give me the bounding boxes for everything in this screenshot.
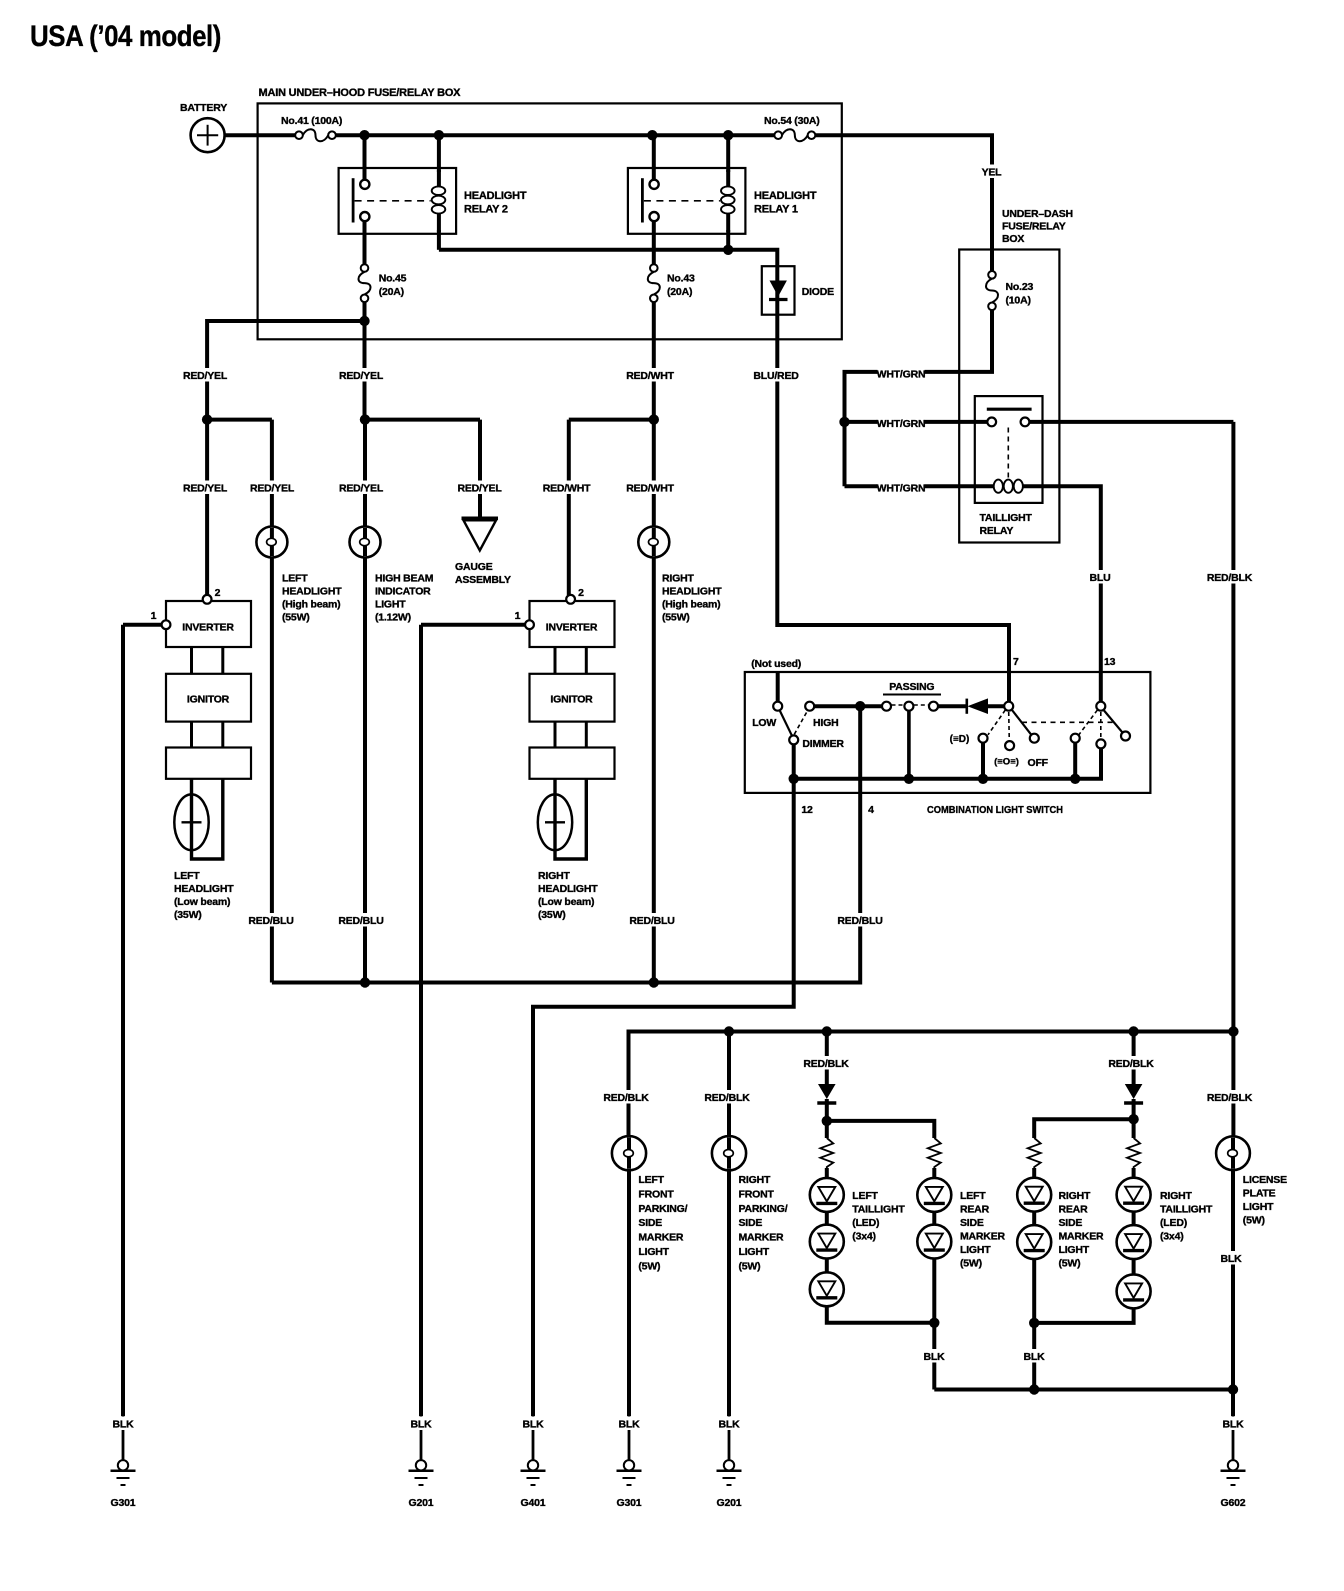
svg-text:RED/YEL: RED/YEL [339, 483, 384, 495]
svg-text:TAILLIGHT: TAILLIGHT [980, 512, 1033, 524]
svg-text:LIGHT: LIGHT [1243, 1201, 1274, 1213]
svg-text:RELAY: RELAY [980, 525, 1014, 537]
svg-text:(20A): (20A) [379, 286, 404, 298]
svg-text:No.54 (30A): No.54 (30A) [764, 115, 820, 127]
svg-text:REAR: REAR [960, 1204, 990, 1216]
svg-text:PLATE: PLATE [1243, 1188, 1276, 1200]
svg-text:INDICATOR: INDICATOR [375, 586, 431, 598]
svg-text:HEADLIGHT: HEADLIGHT [174, 883, 234, 895]
svg-text:12: 12 [801, 804, 813, 816]
svg-text:RED/WHT: RED/WHT [543, 483, 591, 495]
svg-text:(1.12W): (1.12W) [375, 612, 411, 624]
svg-text:SIDE: SIDE [638, 1217, 662, 1229]
svg-text:INVERTER: INVERTER [546, 622, 598, 634]
svg-text:G401: G401 [521, 1497, 546, 1509]
svg-text:(5W): (5W) [1243, 1215, 1265, 1227]
svg-text:BLK: BLK [1223, 1419, 1245, 1431]
svg-text:HEADLIGHT: HEADLIGHT [662, 586, 722, 598]
svg-text:(Low beam): (Low beam) [538, 896, 594, 908]
svg-text:BLK: BLK [619, 1419, 641, 1431]
svg-text:LEFT: LEFT [852, 1190, 878, 1202]
svg-text:LIGHT: LIGHT [960, 1244, 991, 1256]
svg-text:FRONT: FRONT [739, 1188, 775, 1200]
svg-text:RED/BLK: RED/BLK [704, 1092, 750, 1104]
svg-text:INVERTER: INVERTER [182, 622, 234, 634]
svg-text:RELAY 2: RELAY 2 [464, 204, 508, 216]
svg-text:TAILLIGHT: TAILLIGHT [1160, 1204, 1213, 1216]
svg-text:PARKING/: PARKING/ [638, 1203, 687, 1215]
svg-text:DIMMER: DIMMER [802, 738, 844, 750]
svg-text:ASSEMBLY: ASSEMBLY [455, 574, 511, 586]
svg-text:BLK: BLK [719, 1419, 741, 1431]
svg-text:RELAY 1: RELAY 1 [754, 204, 798, 216]
svg-text:BLK: BLK [924, 1351, 946, 1363]
svg-text:LEFT: LEFT [960, 1190, 986, 1202]
svg-text:RIGHT: RIGHT [662, 573, 694, 585]
svg-text:(High beam): (High beam) [282, 599, 340, 611]
svg-text:BLU: BLU [1090, 572, 1111, 584]
svg-text:HIGH BEAM: HIGH BEAM [375, 573, 434, 585]
svg-text:RED/YEL: RED/YEL [183, 483, 228, 495]
svg-text:7: 7 [1013, 656, 1019, 668]
svg-text:WHT/GRN: WHT/GRN [877, 483, 926, 495]
svg-text:(3x4): (3x4) [852, 1231, 876, 1243]
svg-text:No.45: No.45 [379, 273, 407, 285]
svg-text:MARKER: MARKER [739, 1232, 784, 1244]
svg-text:BLK: BLK [1024, 1351, 1046, 1363]
svg-text:(5W): (5W) [960, 1258, 982, 1270]
svg-text:(≡D): (≡D) [950, 734, 970, 745]
svg-text:RED/BLK: RED/BLK [803, 1058, 849, 1070]
svg-text:MARKER: MARKER [638, 1232, 683, 1244]
svg-text:(35W): (35W) [538, 909, 566, 921]
svg-text:No.23: No.23 [1006, 281, 1034, 293]
svg-text:RED/WHT: RED/WHT [626, 370, 674, 382]
svg-text:WHT/GRN: WHT/GRN [877, 369, 926, 381]
svg-text:FUSE/RELAY: FUSE/RELAY [1002, 221, 1066, 233]
svg-text:RED/BLK: RED/BLK [1207, 572, 1253, 584]
svg-text:MAIN UNDER–HOOD FUSE/RELAY BOX: MAIN UNDER–HOOD FUSE/RELAY BOX [259, 87, 462, 99]
svg-text:(Not used): (Not used) [751, 658, 801, 670]
svg-text:RED/YEL: RED/YEL [183, 370, 228, 382]
svg-text:PARKING/: PARKING/ [739, 1203, 788, 1215]
svg-text:RED/YEL: RED/YEL [339, 370, 384, 382]
svg-text:RED/BLK: RED/BLK [1108, 1058, 1154, 1070]
svg-text:BLK: BLK [1221, 1253, 1243, 1265]
svg-text:LOW: LOW [752, 717, 776, 729]
svg-text:HEADLIGHT: HEADLIGHT [538, 883, 598, 895]
svg-text:OFF: OFF [1028, 757, 1049, 769]
svg-text:LIGHT: LIGHT [638, 1246, 669, 1258]
svg-text:13: 13 [1104, 656, 1116, 668]
svg-text:DIODE: DIODE [802, 286, 834, 298]
svg-text:RED/YEL: RED/YEL [457, 483, 502, 495]
svg-text:USA (’04 model): USA (’04 model) [30, 20, 221, 53]
svg-text:LIGHT: LIGHT [375, 599, 406, 611]
svg-text:BOX: BOX [1002, 233, 1024, 245]
svg-text:(55W): (55W) [662, 612, 690, 624]
svg-text:LIGHT: LIGHT [739, 1246, 770, 1258]
svg-text:G301: G301 [111, 1497, 136, 1509]
svg-text:REAR: REAR [1059, 1204, 1089, 1216]
svg-text:(5W): (5W) [739, 1260, 761, 1272]
svg-text:RED/BLU: RED/BLU [837, 915, 882, 927]
svg-text:RED/BLU: RED/BLU [629, 915, 674, 927]
svg-text:RIGHT: RIGHT [739, 1174, 771, 1186]
svg-text:(Low beam): (Low beam) [174, 896, 230, 908]
svg-text:LEFT: LEFT [638, 1174, 664, 1186]
svg-text:LIGHT: LIGHT [1059, 1244, 1090, 1256]
svg-text:No.43: No.43 [667, 273, 695, 285]
svg-text:G201: G201 [717, 1497, 742, 1509]
svg-text:SIDE: SIDE [960, 1217, 984, 1229]
svg-text:BLK: BLK [411, 1419, 433, 1431]
svg-text:SIDE: SIDE [1059, 1217, 1083, 1229]
svg-text:RIGHT: RIGHT [1160, 1190, 1192, 1202]
svg-text:LICENSE: LICENSE [1243, 1174, 1287, 1186]
svg-text:SIDE: SIDE [739, 1217, 763, 1229]
svg-text:RIGHT: RIGHT [1059, 1190, 1091, 1202]
svg-text:BLK: BLK [523, 1419, 545, 1431]
svg-text:G201: G201 [409, 1497, 434, 1509]
svg-text:MARKER: MARKER [960, 1231, 1005, 1243]
svg-text:(5W): (5W) [1059, 1258, 1081, 1270]
svg-text:RED/BLU: RED/BLU [338, 915, 383, 927]
svg-text:COMBINATION LIGHT SWITCH: COMBINATION LIGHT SWITCH [927, 804, 1063, 816]
svg-text:(10A): (10A) [1006, 295, 1031, 307]
svg-text:No.41 (100A): No.41 (100A) [281, 115, 342, 127]
svg-text:G301: G301 [617, 1497, 642, 1509]
svg-text:GAUGE: GAUGE [455, 561, 493, 573]
svg-text:RED/BLK: RED/BLK [603, 1092, 649, 1104]
svg-text:IGNITOR: IGNITOR [550, 694, 593, 706]
svg-text:RED/WHT: RED/WHT [626, 483, 674, 495]
svg-text:(LED): (LED) [852, 1217, 879, 1229]
svg-text:(3x4): (3x4) [1160, 1231, 1184, 1243]
svg-text:HEADLIGHT: HEADLIGHT [754, 190, 817, 202]
svg-text:(≡O≡): (≡O≡) [994, 757, 1019, 768]
svg-text:UNDER–DASH: UNDER–DASH [1002, 208, 1073, 220]
svg-text:HEADLIGHT: HEADLIGHT [464, 190, 527, 202]
svg-text:FRONT: FRONT [638, 1188, 674, 1200]
svg-text:PASSING: PASSING [889, 681, 934, 693]
svg-text:RIGHT: RIGHT [538, 870, 570, 882]
svg-text:2: 2 [215, 587, 221, 599]
svg-text:BLK: BLK [113, 1419, 135, 1431]
svg-text:RED/BLU: RED/BLU [248, 915, 293, 927]
svg-text:LEFT: LEFT [174, 870, 200, 882]
svg-text:(LED): (LED) [1160, 1217, 1187, 1229]
svg-text:LEFT: LEFT [282, 573, 308, 585]
svg-text:(High beam): (High beam) [662, 599, 720, 611]
svg-text:(20A): (20A) [667, 286, 692, 298]
svg-text:G602: G602 [1221, 1497, 1246, 1509]
svg-text:1: 1 [515, 610, 521, 622]
svg-text:RED/BLK: RED/BLK [1207, 1092, 1253, 1104]
svg-text:4: 4 [868, 804, 874, 816]
svg-text:2: 2 [578, 587, 584, 599]
svg-text:TAILLIGHT: TAILLIGHT [852, 1204, 905, 1216]
svg-text:HEADLIGHT: HEADLIGHT [282, 586, 342, 598]
svg-text:YEL: YEL [982, 167, 1003, 179]
svg-text:1: 1 [151, 610, 157, 622]
svg-text:(55W): (55W) [282, 612, 310, 624]
svg-text:BATTERY: BATTERY [180, 102, 227, 114]
svg-text:MARKER: MARKER [1059, 1231, 1104, 1243]
svg-text:(35W): (35W) [174, 909, 202, 921]
svg-text:HIGH: HIGH [813, 717, 838, 729]
svg-text:BLU/RED: BLU/RED [753, 370, 799, 382]
svg-text:WHT/GRN: WHT/GRN [877, 418, 926, 430]
svg-text:IGNITOR: IGNITOR [187, 694, 230, 706]
svg-text:(5W): (5W) [638, 1260, 660, 1272]
svg-text:RED/YEL: RED/YEL [250, 483, 295, 495]
